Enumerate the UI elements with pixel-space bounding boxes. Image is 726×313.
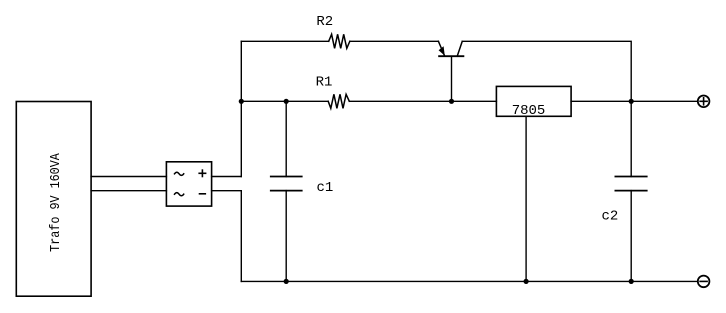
resistor R2 (316, 14, 349, 48)
terminal minus output (698, 276, 710, 288)
wire transformer bottom lead (91, 190, 166, 192)
svg-text:Trafo 9V 160VA: Trafo 9V 160VA (47, 153, 63, 252)
transformer T1 Trafo 9V 160VA (16, 102, 91, 297)
capacitor C1 (271, 101, 334, 281)
terminal plus output (698, 96, 710, 108)
node junction dots (239, 99, 634, 284)
wire left vertical (bridge plus up to top rail) (240, 41, 242, 176)
bridge rectifier B1 (166, 162, 211, 206)
capacitor C2 (602, 101, 647, 281)
svg-text:7805: 7805 (512, 103, 546, 119)
resistor R1 (316, 75, 350, 109)
wire bridge minus output down to ground rail (212, 191, 242, 282)
wire ground rail (241, 280, 697, 282)
svg-text:c1: c1 (317, 180, 334, 196)
svg-text:R1: R1 (316, 75, 333, 91)
transistor Q1 (PNP) (438, 41, 463, 101)
wire top rail left segment (241, 40, 328, 42)
svg-text:R2: R2 (316, 14, 333, 30)
svg-text:c2: c2 (602, 209, 619, 225)
wire top rail right segment to transistor emitter (350, 40, 439, 42)
regulator U1 7805 (496, 86, 571, 281)
wire 7805 output to plus terminal (571, 100, 698, 102)
wire bridge plus output (212, 176, 242, 178)
wire collector to right vertical (462, 41, 631, 101)
wire transformer top lead (91, 176, 166, 178)
wire main rail to 7805 input (349, 100, 496, 102)
wire main rail left segment (241, 100, 328, 102)
